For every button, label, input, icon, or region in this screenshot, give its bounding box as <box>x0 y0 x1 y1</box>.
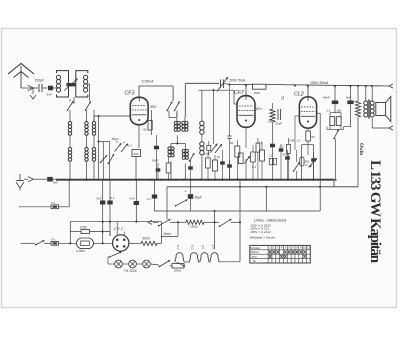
switch S2 <box>86 102 91 110</box>
wire L6a top <box>176 113 178 121</box>
svg-text:C Y 2: C Y 2 <box>114 227 124 231</box>
ground symbol <box>19 174 21 181</box>
svg-text:CF7: CF7 <box>202 244 205 249</box>
table X marks <box>269 251 271 254</box>
capacitor 5nF input <box>48 86 53 91</box>
heater CF3 <box>189 253 198 263</box>
capacitor C7 <box>277 109 279 120</box>
wire CY2 tops <box>116 222 118 236</box>
wire netz c <box>204 221 219 223</box>
wire 49V <box>151 110 153 135</box>
capacitor C6 <box>220 161 225 164</box>
svg-text:0,5M: 0,5M <box>288 139 295 143</box>
svg-text:Owin: Owin <box>358 143 364 155</box>
svg-text:0,05mA: 0,05mA <box>142 80 155 84</box>
capacitor C10 <box>332 101 339 105</box>
svg-text:30µF: 30µF <box>195 196 203 200</box>
connector mains <box>148 220 152 224</box>
svg-text:0,1: 0,1 <box>327 108 331 112</box>
wire L8 down <box>201 155 203 180</box>
capacitor C22 <box>207 145 211 150</box>
svg-text:11: 11 <box>307 246 310 250</box>
resistor R10 <box>306 131 311 141</box>
wire TA2 c <box>59 242 77 244</box>
svg-text:0,1: 0,1 <box>147 197 151 201</box>
svg-text:40V: 40V <box>256 107 263 111</box>
heater CY2 <box>175 253 184 263</box>
IF winding L6a <box>174 121 177 124</box>
capacitor C18 <box>156 168 161 171</box>
capacitor C14 <box>109 180 111 236</box>
wire CF3 cathode <box>138 125 140 148</box>
svg-text:300: 300 <box>134 152 139 156</box>
svg-text:0,1: 0,1 <box>128 144 132 148</box>
switch S1 <box>68 102 74 111</box>
svg-text:150pF: 150pF <box>35 79 45 83</box>
trimmer CT2 <box>115 144 122 152</box>
switch S5 <box>294 163 300 172</box>
resistor R12 <box>330 117 335 126</box>
table grid <box>250 245 310 263</box>
trimmer CT3 <box>121 144 128 152</box>
wire CF7 cathode <box>245 127 247 148</box>
switch S9 <box>220 219 232 226</box>
wire y141 link <box>99 141 110 143</box>
resistor R17 5000 <box>129 242 141 244</box>
wire TA2 b <box>44 242 51 244</box>
svg-text:5000: 5000 <box>143 237 150 241</box>
bus B <box>167 186 358 188</box>
svg-text:Urdox - Widerstand: Urdox - Widerstand <box>254 219 287 223</box>
bus A junction dots <box>69 179 71 181</box>
wire rail 2 <box>230 84 253 86</box>
svg-text:2W: 2W <box>268 120 273 124</box>
capacitor C8 <box>270 144 275 148</box>
coil L2 <box>84 75 88 79</box>
trimmer CT7 <box>309 159 317 168</box>
trimmer CT6 <box>215 145 222 154</box>
wire S6 down <box>335 139 337 180</box>
wire to R18 <box>170 265 173 267</box>
tube CF7 <box>237 96 255 128</box>
trimmer CT4 on rail <box>220 80 222 89</box>
switch S13 <box>190 154 195 162</box>
wire L4 top <box>86 110 88 122</box>
wire speaker out <box>371 118 373 128</box>
bandfilter bracket 1 <box>57 71 69 97</box>
resistor pair R24 <box>269 158 272 164</box>
capacitor C5 <box>228 135 232 137</box>
heater CF7 <box>200 253 209 263</box>
wire TA1 b <box>59 206 70 208</box>
wire x103 vertical <box>102 142 104 180</box>
svg-text:T.A.: T.A. <box>51 201 56 205</box>
svg-text:180Ω: 180Ω <box>174 269 182 273</box>
resistor R11 <box>300 157 304 166</box>
wire x109 vertical <box>109 142 111 180</box>
capacitor 150pF <box>38 84 40 92</box>
wire netz b <box>170 221 186 223</box>
wire L7b ends <box>184 144 186 150</box>
coil L5b <box>92 148 95 151</box>
svg-text:5nF: 5nF <box>346 95 351 99</box>
coil L3a <box>68 122 71 125</box>
wire L6b top <box>184 117 186 121</box>
svg-text:1,2: 1,2 <box>269 155 273 158</box>
transformer T1 secondary <box>370 101 374 105</box>
switch S10 <box>36 241 44 245</box>
bus B dots <box>239 186 241 188</box>
wire L8 mid <box>201 134 203 141</box>
svg-text:50: 50 <box>230 141 234 145</box>
capacitor C21 <box>311 158 316 161</box>
osc coil L8a <box>200 121 204 125</box>
wire C12 to bus <box>53 178 56 180</box>
switch S12 <box>160 261 170 267</box>
IF winding L7a <box>168 147 171 150</box>
switch S6 <box>334 130 339 139</box>
resistor R13 <box>336 117 341 126</box>
svg-text:CF3: CF3 <box>125 91 135 97</box>
svg-text:Wellen: Wellen <box>250 250 259 254</box>
svg-text:50pF: 50pF <box>276 122 283 126</box>
wire L7a ends <box>170 144 172 147</box>
wire CL2 anode <box>307 86 309 97</box>
wire chain C lead <box>93 116 95 122</box>
lamp LP2 <box>129 260 137 268</box>
svg-text:CF7: CF7 <box>234 90 245 96</box>
wire S4 drop <box>176 111 178 118</box>
svg-text:45: 45 <box>143 128 147 132</box>
earth branch connector <box>32 88 34 94</box>
svg-text:40nF: 40nF <box>323 95 330 99</box>
resistor R16 1250 <box>70 231 81 233</box>
svg-text:1MΩ: 1MΩ <box>254 91 261 95</box>
resistor R1 45 <box>148 121 152 131</box>
svg-text:Weißtaler = Muster: Weißtaler = Muster <box>250 236 277 240</box>
coil L3b <box>68 148 71 151</box>
svg-text:L 133 GW Kapitän: L 133 GW Kapitän <box>367 160 383 263</box>
svg-text:Lang: Lang <box>250 255 257 259</box>
svg-text:6,8: 6,8 <box>259 141 263 145</box>
wire x320 vertical <box>319 113 321 211</box>
wire CF7 anode <box>245 85 247 96</box>
svg-text:0,1: 0,1 <box>297 139 301 143</box>
svg-text:5nF: 5nF <box>97 197 102 201</box>
svg-text:150V = U 2112: 150V = U 2112 <box>250 230 270 234</box>
wire D left drop <box>69 222 71 244</box>
bandfilter bracket 2 <box>76 71 88 97</box>
svg-text:Fe 3218: Fe 3218 <box>125 269 137 273</box>
wire ground <box>24 178 28 180</box>
wire IF link <box>171 143 185 145</box>
switch SB <box>108 154 114 163</box>
wire grid CF7 <box>198 89 234 91</box>
bus C <box>155 210 321 212</box>
svg-text:5C: 5C <box>281 96 285 101</box>
wire L3 top <box>69 110 71 122</box>
resistor R23 <box>287 144 291 153</box>
coil L5a <box>92 122 95 125</box>
wire x266 vertical <box>265 187 267 211</box>
svg-text:150Ω: 150Ω <box>190 225 198 229</box>
resistor R15 150 <box>186 220 204 224</box>
tube CY2 <box>113 235 129 251</box>
coil L4a <box>85 122 88 125</box>
switch SA <box>101 156 107 163</box>
capacitor C13 <box>102 180 104 244</box>
wire L3 mid <box>69 135 71 147</box>
lamp LP3 <box>143 260 151 268</box>
feedback box <box>302 145 314 180</box>
capacitor C20 <box>227 164 232 167</box>
wire CY2 bottom <box>120 251 122 252</box>
switch S4 <box>175 102 180 111</box>
svg-text:Netz: Netz <box>164 232 172 236</box>
svg-text:5nF: 5nF <box>47 93 52 97</box>
wire rail 3 <box>266 85 389 87</box>
fuse F1 <box>51 205 58 209</box>
resistor R2 300 <box>132 150 141 157</box>
svg-text:1250: 1250 <box>80 225 87 229</box>
capacitor C16 <box>154 180 156 211</box>
wire CF3 anode rail <box>139 85 173 87</box>
connector output bottom <box>389 126 393 130</box>
wire can mid stem <box>73 97 75 104</box>
trimmer CT8 <box>244 157 249 164</box>
wire D line <box>70 221 161 223</box>
IF winding L7b <box>182 149 185 152</box>
wire R2 down <box>135 157 137 180</box>
wire x214 vertical <box>214 211 216 249</box>
capacitor C15 <box>135 180 137 222</box>
wire box bracket bottom <box>327 128 344 130</box>
coil L4b <box>85 148 88 151</box>
wire heater entry <box>183 265 185 267</box>
wire x240 vertical <box>239 180 241 262</box>
switch S8 mains <box>159 219 171 226</box>
capacitor C11 <box>347 101 353 105</box>
capacitor C17 elco <box>188 194 193 199</box>
svg-text:CL2: CL2 <box>212 244 215 249</box>
resistor R5 <box>213 160 218 171</box>
svg-text:5nF: 5nF <box>53 181 58 185</box>
wire rail drop <box>172 86 174 101</box>
wire TA2 a <box>21 242 35 244</box>
fuse F2 <box>51 241 58 245</box>
wire netz d <box>231 221 240 223</box>
transformer T1 core <box>367 100 369 119</box>
svg-text:CL2: CL2 <box>294 92 304 98</box>
svg-text:1kΩ: 1kΩ <box>337 108 342 112</box>
svg-text:U-dox: U-dox <box>76 249 85 253</box>
osc coil L8b <box>200 142 204 146</box>
resistor R7 <box>239 153 244 164</box>
svg-text:T.A.: T.A. <box>51 237 56 241</box>
svg-text:49V: 49V <box>150 105 157 109</box>
svg-text:50pF: 50pF <box>112 137 119 141</box>
svg-text:200V 5mA: 200V 5mA <box>228 79 246 83</box>
trimmer CT1 <box>64 79 77 91</box>
wire osc top <box>201 90 203 121</box>
wire netz a <box>153 221 158 223</box>
svg-text:50Ω: 50Ω <box>304 160 309 164</box>
IF winding L6b <box>182 121 185 124</box>
transformer T1 primary <box>364 101 368 105</box>
wire R16 drop <box>109 232 111 236</box>
wire heater links <box>184 261 189 263</box>
capacitor C12 5nF <box>47 177 53 182</box>
svg-text:6nF: 6nF <box>130 197 135 201</box>
wire can2 out <box>88 83 90 85</box>
switch S3 <box>167 102 172 111</box>
capacitor C4 <box>154 146 159 150</box>
wire L3 bottom <box>69 161 71 179</box>
wire S3 drop <box>168 111 170 118</box>
svg-text:6n: 6n <box>217 155 221 159</box>
switch S7 <box>176 200 188 206</box>
resistor R14 zig <box>355 101 360 117</box>
heater CL2 <box>210 253 219 263</box>
svg-text:CY2: CY2 <box>177 244 180 249</box>
resistor R18 180 <box>172 264 184 268</box>
resistor R20 <box>206 158 211 168</box>
wire mixer drop <box>213 90 215 144</box>
capacitor C19 <box>188 166 193 169</box>
svg-text:0,1: 0,1 <box>252 165 256 169</box>
svg-text:1,5: 1,5 <box>203 152 207 156</box>
svg-text:50: 50 <box>312 135 316 139</box>
tube CF3 <box>130 97 148 124</box>
wire L4 mid <box>86 135 88 147</box>
wire x98 vertical <box>98 116 100 180</box>
svg-text:190V 35mA: 190V 35mA <box>310 81 329 85</box>
wire antenna to C1 <box>21 87 38 89</box>
svg-text:G: G <box>305 163 307 167</box>
wire CL2 grid <box>295 115 299 117</box>
wire netz box <box>160 222 162 244</box>
connector output top <box>389 84 393 88</box>
svg-text:Schalter: Schalter <box>250 246 260 250</box>
capacitor C23 <box>279 148 284 151</box>
bus A chassis <box>56 179 334 181</box>
wire L5 top <box>93 110 95 122</box>
resistor R9 <box>260 150 265 161</box>
resistor R19 <box>166 163 171 173</box>
svg-text:0,3: 0,3 <box>280 145 284 149</box>
svg-text:CF3: CF3 <box>191 244 194 249</box>
urdox U1 <box>77 238 94 249</box>
coil L1 <box>56 75 60 79</box>
speaker LS <box>376 103 386 116</box>
wire L5 bottom <box>93 161 95 179</box>
capacitor C9 <box>285 156 290 159</box>
wire R10 down <box>307 141 309 155</box>
resistor R21 <box>251 152 256 162</box>
resistor R6 <box>235 146 240 157</box>
svg-text:0,1: 0,1 <box>185 156 189 160</box>
svg-text:0,1: 0,1 <box>111 196 115 200</box>
wire TA1 a <box>19 206 51 208</box>
svg-text:TA: TA <box>252 259 255 263</box>
wire rail main <box>185 82 219 84</box>
wire box bracket top <box>330 112 341 114</box>
resistor R22 <box>256 143 260 152</box>
wire L6a down <box>176 135 178 143</box>
switch S11 <box>110 252 122 257</box>
wire L5 mid <box>93 135 95 147</box>
wire urdox cy2 <box>94 242 113 244</box>
svg-text:50nF: 50nF <box>152 159 159 163</box>
wire lamps out <box>151 264 159 265</box>
wire CF3 anode <box>138 86 140 97</box>
wire R14 down <box>357 117 359 187</box>
wire L4 bottom <box>86 161 88 179</box>
capacitor CT1 pad <box>66 83 76 86</box>
junction rail dots <box>245 84 247 86</box>
resistor R8 zig <box>270 109 275 122</box>
trimmer CT5 <box>211 144 218 153</box>
bus A drop <box>333 180 335 187</box>
antenna A1 <box>8 64 34 91</box>
tube CL2 <box>299 97 316 128</box>
resistor R4 5k <box>253 84 267 89</box>
lamp LP1 <box>115 260 123 268</box>
